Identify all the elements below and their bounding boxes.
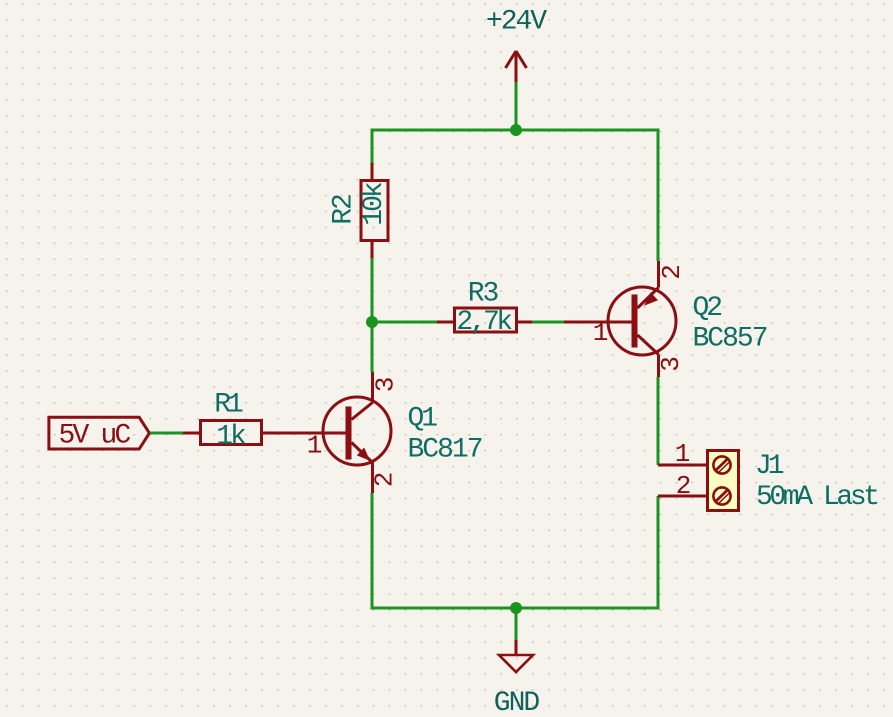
svg-text:BC817: BC817	[408, 435, 482, 466]
svg-text:R1: R1	[214, 390, 243, 421]
svg-text:2,7k: 2,7k	[456, 307, 512, 338]
wire label to R1	[150, 432, 183, 435]
wire Q2 collector to J1 pin1	[657, 377, 660, 465]
wire bottom rail with risers from Q1 emitter and J1 pin2	[372, 493, 658, 608]
svg-text:R2: R2	[329, 195, 360, 225]
node junction middle	[366, 316, 378, 328]
power symbol +24V	[506, 51, 527, 82]
svg-text:BC857: BC857	[693, 324, 767, 355]
transistor Q2	[564, 261, 676, 377]
svg-text:2: 2	[676, 471, 690, 501]
svg-text:1: 1	[675, 439, 690, 469]
svg-text:R3: R3	[468, 279, 499, 310]
svg-text:1: 1	[593, 318, 608, 348]
svg-text:2: 2	[370, 473, 400, 487]
wire top rail with drops to R2 and Q2 emitter	[372, 130, 658, 261]
wire power to top rail	[515, 82, 518, 130]
svg-text:10k: 10k	[359, 182, 390, 226]
svg-text:50mA Last: 50mA Last	[756, 482, 877, 513]
svg-text:Q1: Q1	[408, 404, 438, 435]
node junction top	[510, 124, 522, 136]
svg-text:+24V: +24V	[486, 7, 547, 38]
resistor R2	[361, 163, 388, 258]
svg-text:Q2: Q2	[693, 293, 722, 324]
wire R2 bottom through junction to Q1 collector	[371, 258, 374, 372]
svg-text:3: 3	[656, 358, 686, 372]
svg-text:3: 3	[371, 378, 401, 392]
resistor R3	[437, 308, 532, 332]
transistor Q1	[295, 372, 391, 493]
global label 5V uC	[49, 417, 149, 451]
svg-text:1k: 1k	[216, 422, 246, 453]
wire GND drop	[515, 608, 518, 640]
wire R3 to Q2 base	[532, 321, 564, 324]
svg-text:GND: GND	[494, 688, 540, 717]
connector J1	[658, 451, 739, 511]
node junction bottom	[510, 602, 522, 614]
wire junction to R3	[372, 321, 437, 324]
svg-text:2: 2	[657, 266, 687, 280]
svg-text:5V uC: 5V uC	[59, 421, 131, 452]
svg-text:1: 1	[307, 431, 322, 461]
ground	[499, 640, 533, 672]
svg-text:J1: J1	[755, 451, 784, 482]
resistor R1	[183, 421, 295, 445]
